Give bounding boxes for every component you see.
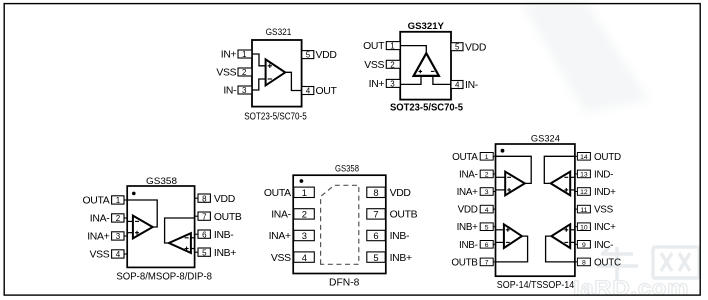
svg-text:2: 2 xyxy=(242,68,247,77)
pin 1 dot marker xyxy=(300,179,304,183)
pin 5 box xyxy=(195,248,211,257)
svg-text:VSS: VSS xyxy=(364,60,384,71)
svg-text:8: 8 xyxy=(582,260,586,267)
svg-text:OUTA: OUTA xyxy=(82,196,109,207)
label VSS xyxy=(594,205,614,216)
label OUT xyxy=(363,41,385,52)
svg-text:1: 1 xyxy=(242,50,247,59)
svg-text:GS324: GS324 xyxy=(531,133,561,144)
svg-text:SOT23-5/SC70-5: SOT23-5/SC70-5 xyxy=(390,103,463,114)
op-amp U5C xyxy=(551,224,570,248)
svg-text:5: 5 xyxy=(373,252,378,263)
wire pin1 to noninverting input xyxy=(252,54,266,66)
svg-text:INC-: INC- xyxy=(594,240,613,251)
svg-text:3: 3 xyxy=(116,232,121,241)
pin 8 box xyxy=(195,194,211,203)
wire pin2 to amp A inverting input xyxy=(127,220,133,222)
svg-text:OUTA: OUTA xyxy=(264,188,291,199)
IC U2 GS321Y label xyxy=(408,21,445,32)
svg-text:5: 5 xyxy=(485,224,489,231)
svg-text:1: 1 xyxy=(485,154,489,161)
svg-text:14: 14 xyxy=(580,154,588,161)
pin 1 dot marker xyxy=(132,192,136,196)
label OUTA xyxy=(82,196,109,207)
pin 8 box xyxy=(367,187,385,198)
package name SOP-14/TSSOP-14 xyxy=(497,280,575,291)
svg-text:4: 4 xyxy=(116,250,121,259)
pin 3 box xyxy=(480,188,495,197)
label OUTA xyxy=(264,188,291,199)
svg-text:VSS: VSS xyxy=(594,205,614,216)
pin 4 box xyxy=(480,205,495,214)
svg-text:1: 1 xyxy=(390,42,395,51)
watermark character WANG xyxy=(653,247,699,278)
label INB+ xyxy=(390,253,412,264)
pin 12 box xyxy=(575,188,591,197)
svg-text:OUTB: OUTB xyxy=(390,210,418,221)
svg-text:GS358: GS358 xyxy=(335,164,359,175)
pin 7 box xyxy=(480,258,495,267)
label INA+ xyxy=(269,231,291,242)
svg-text:GS321: GS321 xyxy=(266,27,292,38)
pin 4 box xyxy=(451,81,463,90)
label OUTB xyxy=(451,257,478,268)
svg-text:INB-: INB- xyxy=(390,231,410,242)
svg-text:7: 7 xyxy=(373,209,378,220)
wire pin2 to amp A inverting input xyxy=(496,176,506,178)
wire pin13 to amp D inverting input xyxy=(570,176,575,178)
pin 3 box xyxy=(238,86,252,95)
pin 1 box xyxy=(112,196,128,205)
IC U5 body xyxy=(496,144,575,276)
svg-text:11: 11 xyxy=(580,207,587,214)
svg-text:INA-: INA- xyxy=(459,169,478,180)
wire pin1 to op-amp output xyxy=(400,46,426,54)
wire pin4 to inverting input xyxy=(433,76,451,85)
pin 5 box xyxy=(480,223,495,232)
wire amp A output to pin1 xyxy=(127,200,157,227)
svg-text:3: 3 xyxy=(485,189,489,196)
op-amp U3B xyxy=(169,233,191,253)
svg-text:2: 2 xyxy=(390,60,395,69)
IC U1 body xyxy=(252,40,302,107)
svg-text:1: 1 xyxy=(302,187,307,198)
wire op-amp output to pin4 xyxy=(284,72,301,90)
wire pin3 to noninverting input xyxy=(400,76,421,85)
pin 3 box xyxy=(112,232,128,241)
svg-text:8: 8 xyxy=(202,194,207,203)
svg-text:12: 12 xyxy=(580,189,588,196)
svg-text:VDD: VDD xyxy=(316,50,337,61)
pin 2 box xyxy=(386,60,400,69)
IC U3 body xyxy=(127,186,194,267)
label IND+ xyxy=(594,187,616,198)
op-amp U5A xyxy=(505,172,525,196)
svg-text:13: 13 xyxy=(580,172,588,179)
label VSS xyxy=(216,68,236,79)
pin 13 box xyxy=(575,170,591,179)
pin 4 box xyxy=(112,250,128,259)
svg-text:4: 4 xyxy=(306,87,311,96)
pin 3 box xyxy=(294,230,315,241)
svg-text:OUT: OUT xyxy=(316,86,338,97)
IC U5 GS324 label xyxy=(531,133,561,144)
label VDD xyxy=(465,42,486,53)
pin 5 box xyxy=(302,51,314,60)
IC U3 GS358 label xyxy=(146,176,177,187)
label VDD xyxy=(214,194,235,205)
exposed pad dashed outline xyxy=(321,185,359,264)
svg-text:IND+: IND+ xyxy=(594,187,616,198)
svg-text:INA+: INA+ xyxy=(87,232,109,243)
IC U4 GS358 label xyxy=(335,164,359,175)
svg-text:OUTB: OUTB xyxy=(214,212,242,223)
label INB- xyxy=(214,230,234,241)
svg-text:IN+: IN+ xyxy=(221,50,237,61)
watermark character NIU xyxy=(597,246,638,282)
label IN+ xyxy=(221,50,237,61)
label VDD xyxy=(390,188,411,199)
package name DFN-8 xyxy=(329,277,360,288)
label OUT xyxy=(316,86,338,97)
svg-text:SOP-14/TSSOP-14: SOP-14/TSSOP-14 xyxy=(497,280,575,291)
svg-text:OUTD: OUTD xyxy=(594,152,621,163)
svg-text:IN-: IN- xyxy=(223,86,236,97)
svg-text:IaRD.com: IaRD.com xyxy=(573,277,689,300)
pin 2 box xyxy=(238,68,252,77)
pin 5 box xyxy=(367,252,385,263)
svg-text:5: 5 xyxy=(455,43,460,52)
svg-text:VDD: VDD xyxy=(465,42,486,53)
wire pin6 to amp B inverting input xyxy=(191,237,195,239)
label INA- xyxy=(271,210,291,221)
svg-text:INA+: INA+ xyxy=(457,187,479,198)
svg-text:OUTA: OUTA xyxy=(452,152,478,163)
svg-text:IN-: IN- xyxy=(465,80,478,91)
svg-text:2: 2 xyxy=(116,214,121,223)
svg-text:10: 10 xyxy=(580,224,588,231)
label INC+ xyxy=(594,222,616,233)
label OUTA xyxy=(452,152,478,163)
op-amp U2 xyxy=(414,53,439,76)
svg-text:6: 6 xyxy=(373,230,378,241)
svg-text:INA+: INA+ xyxy=(269,231,291,242)
svg-text:INB-: INB- xyxy=(459,240,478,251)
pin 5 box xyxy=(451,43,463,52)
watermark text IaRD.com xyxy=(573,277,689,300)
wire pin3 to amp A noninverting input xyxy=(127,232,133,234)
wire pin12 to amp D noninverting input xyxy=(570,189,575,191)
label VSS xyxy=(271,253,291,264)
wire pin9 to amp C inverting input xyxy=(570,241,575,243)
IC U2 body xyxy=(400,32,451,100)
svg-text:6: 6 xyxy=(202,230,207,239)
svg-text:VSS: VSS xyxy=(271,253,291,264)
pin 8 box xyxy=(575,258,591,267)
label OUTB xyxy=(214,212,242,223)
pin 7 box xyxy=(195,212,211,221)
label OUTD xyxy=(594,152,621,163)
label INB+ xyxy=(457,222,479,233)
svg-text:1: 1 xyxy=(116,196,121,205)
svg-text:IND-: IND- xyxy=(594,169,613,180)
wire amp C output to pin8 xyxy=(546,236,575,262)
svg-text:INB+: INB+ xyxy=(214,248,236,259)
label INC- xyxy=(594,240,613,251)
svg-text:INA-: INA- xyxy=(90,214,110,225)
svg-text:INB-: INB- xyxy=(214,230,234,241)
wire amp B output to pin7 xyxy=(165,218,195,243)
svg-text:INB+: INB+ xyxy=(457,222,479,233)
pin 2 box xyxy=(112,214,128,223)
package name SOT23-5/SC70-5 xyxy=(390,103,463,114)
wire amp D output to pin14 xyxy=(544,156,575,183)
pin 1 box xyxy=(238,50,252,59)
svg-text:INC+: INC+ xyxy=(594,222,616,233)
svg-text:4: 4 xyxy=(455,81,460,90)
pin 1 box xyxy=(386,42,400,51)
pin 3 box xyxy=(386,79,400,88)
svg-text:VSS: VSS xyxy=(216,68,236,79)
svg-text:4: 4 xyxy=(485,207,489,214)
pin 14 box xyxy=(575,153,591,162)
svg-text:4: 4 xyxy=(302,252,307,263)
svg-text:VDD: VDD xyxy=(390,188,411,199)
svg-text:2: 2 xyxy=(485,172,489,179)
svg-text:5: 5 xyxy=(306,51,311,60)
svg-text:7: 7 xyxy=(485,260,489,267)
svg-text:VDD: VDD xyxy=(214,194,235,205)
package name SOP-8/MSOP-8/DIP-8 xyxy=(116,271,212,282)
svg-text:OUTB: OUTB xyxy=(451,257,478,268)
wire pin6 to amp B inverting input xyxy=(496,241,504,243)
label IN+ xyxy=(369,79,385,90)
wire pin3 to amp A noninverting input xyxy=(496,189,506,191)
op-amp U5D xyxy=(551,172,571,196)
label INA+ xyxy=(457,187,479,198)
wire pin5 to amp B noninverting input xyxy=(191,248,195,250)
op-amp U5B xyxy=(504,224,522,248)
pin 2 box xyxy=(480,170,495,179)
svg-text:8: 8 xyxy=(373,187,378,198)
wire amp B output to pin7 xyxy=(496,236,528,262)
svg-text:VSS: VSS xyxy=(89,250,109,261)
IC U4 body xyxy=(293,175,386,273)
label VDD xyxy=(316,50,337,61)
svg-text:SOP-8/MSOP-8/DIP-8: SOP-8/MSOP-8/DIP-8 xyxy=(116,271,212,282)
label INB- xyxy=(459,240,478,251)
label INB+ xyxy=(214,248,236,259)
svg-text:6: 6 xyxy=(485,242,489,249)
label IN- xyxy=(465,80,478,91)
pin 1 box xyxy=(294,187,315,198)
op-amp U1 xyxy=(266,59,286,85)
wire amp A output to pin1 xyxy=(496,156,532,183)
svg-text:3: 3 xyxy=(302,230,307,241)
svg-text:3: 3 xyxy=(390,79,395,88)
IC U1 GS321 label xyxy=(266,27,292,38)
wire pin3 to inverting input xyxy=(252,79,266,90)
svg-text:INA-: INA- xyxy=(271,210,291,221)
svg-text:IN+: IN+ xyxy=(369,79,385,90)
pin 1 dot marker xyxy=(501,149,505,153)
pin 2 box xyxy=(294,209,315,220)
wire pin5 to amp B noninverting input xyxy=(496,229,504,231)
package name SOT23-5/SC70-5 xyxy=(244,111,307,122)
label VSS xyxy=(364,60,384,71)
label OUTC xyxy=(594,257,621,268)
label VDD xyxy=(458,205,478,216)
label IND- xyxy=(594,169,613,180)
pin 6 box xyxy=(367,230,385,241)
pin 6 box xyxy=(480,241,495,250)
svg-text:GS321Y: GS321Y xyxy=(408,21,445,32)
label INA- xyxy=(90,214,110,225)
pin 11 box xyxy=(575,205,591,214)
wire pin10 to amp C noninverting input xyxy=(570,229,575,231)
label OUTB xyxy=(390,210,418,221)
svg-text:DFN-8: DFN-8 xyxy=(329,277,360,288)
svg-text:5: 5 xyxy=(202,248,207,257)
pin 4 box xyxy=(302,87,314,96)
label INA- xyxy=(459,169,478,180)
pin 6 box xyxy=(195,230,211,239)
svg-text:VDD: VDD xyxy=(458,205,478,216)
svg-text:2: 2 xyxy=(302,209,307,220)
pin 7 box xyxy=(367,209,385,220)
label INB- xyxy=(390,231,410,242)
label IN- xyxy=(223,86,236,97)
svg-text:OUT: OUT xyxy=(363,41,385,52)
svg-text:OUTC: OUTC xyxy=(594,257,621,268)
svg-text:7: 7 xyxy=(202,212,207,221)
watermark diagonal band xyxy=(521,2,649,113)
svg-text:INB+: INB+ xyxy=(390,253,412,264)
pin 10 box xyxy=(575,223,591,232)
pin 4 box xyxy=(294,252,315,263)
op-amp U3A xyxy=(133,216,153,239)
pin 9 box xyxy=(575,241,591,250)
pin 1 box xyxy=(480,153,495,162)
label INA+ xyxy=(87,232,109,243)
svg-text:9: 9 xyxy=(582,242,586,249)
svg-text:SOT23-5/SC70-5: SOT23-5/SC70-5 xyxy=(244,111,307,122)
svg-text:3: 3 xyxy=(242,86,247,95)
label VSS xyxy=(89,250,109,261)
